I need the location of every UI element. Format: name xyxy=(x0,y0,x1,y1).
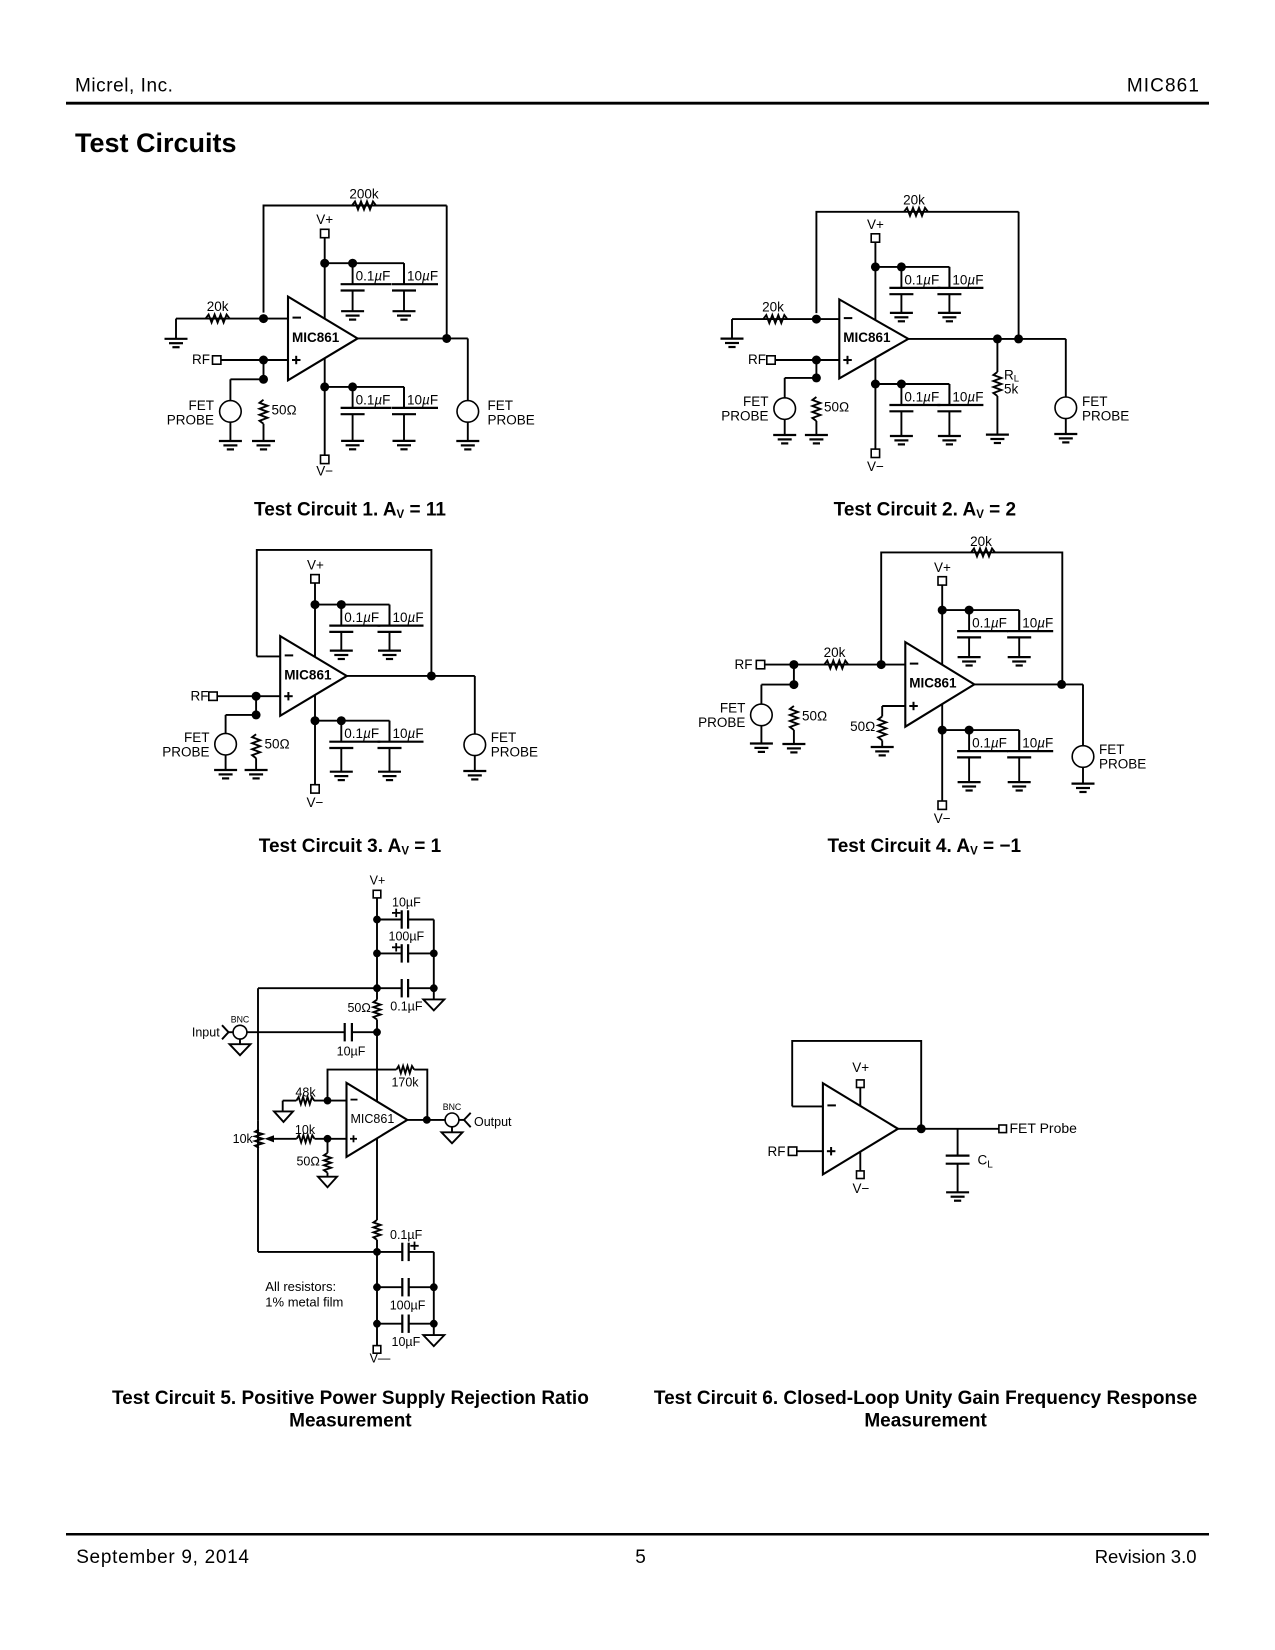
junction: V+ rail / bypass caps xyxy=(311,600,320,609)
junction: row 2 right xyxy=(430,1283,438,1291)
svg-text:20k: 20k xyxy=(824,645,846,660)
label R7 50 ohm xyxy=(265,737,290,752)
label R5 20k xyxy=(762,300,784,315)
pin: non-inverting input marker xyxy=(827,1147,836,1155)
label R8 50 ohm xyxy=(802,709,827,724)
svg-text:0.1µF: 0.1µF xyxy=(356,392,391,407)
svg-text:MIC861: MIC861 xyxy=(351,1112,395,1126)
wire: RF to +input xyxy=(217,695,280,697)
svg-text:10k: 10k xyxy=(295,1123,316,1137)
ground of C2 xyxy=(393,311,416,319)
svg-text:BNC: BNC xyxy=(443,1102,462,1112)
svg-text:10µF: 10µF xyxy=(407,269,438,284)
svg-text:10µF: 10µF xyxy=(392,1335,421,1349)
terminal RF xyxy=(735,657,765,672)
wire: output xyxy=(898,1128,999,1130)
footer: date xyxy=(76,1547,250,1568)
capacitor C21 0.1uF (V-) xyxy=(377,1228,434,1261)
ground under 50 ohm xyxy=(252,441,275,449)
junction: output / feedback xyxy=(917,1124,926,1133)
wire: feedback loop xyxy=(792,1041,921,1129)
ground under 50 ohm xyxy=(782,744,805,752)
terminal V- (bottom) xyxy=(370,1346,391,1366)
resistor R10 20k (feedback) xyxy=(971,548,995,556)
svg-text:50Ω: 50Ω xyxy=(850,719,875,734)
label R16 10k xyxy=(295,1123,316,1137)
junction: V- rail / bypass caps xyxy=(871,380,880,389)
svg-text:50Ω: 50Ω xyxy=(824,400,849,415)
ground of C13 xyxy=(958,657,981,665)
footer rule xyxy=(66,1533,1209,1536)
terminal V+ pin xyxy=(852,1060,869,1088)
label R15 10k xyxy=(233,1132,254,1146)
ground of C6 xyxy=(938,313,961,321)
capacitor C1 0.1uF xyxy=(341,263,392,311)
FET probe (output) xyxy=(457,398,535,428)
pin: inverting input marker xyxy=(293,317,302,319)
FET probe (input) xyxy=(721,394,795,424)
resistor R12 50 ohm (V+ injection) xyxy=(373,1000,380,1020)
label R1 200k xyxy=(349,186,379,201)
pin: inverting input marker xyxy=(844,317,853,319)
terminal RF xyxy=(768,1144,797,1159)
svg-text:Measurement: Measurement xyxy=(289,1410,412,1431)
svg-text:BNC: BNC xyxy=(231,1014,250,1024)
wire: inverting input xyxy=(176,319,288,339)
svg-text:20k: 20k xyxy=(970,534,992,549)
ground under output FET probe xyxy=(456,441,479,449)
resistor R5 20k (inverting input) xyxy=(763,315,787,323)
capacitor C4 10uF xyxy=(392,387,438,441)
ground at 20k input xyxy=(721,339,744,347)
pin: inverting input marker xyxy=(285,654,294,656)
resistor R17 50 ohm (+input to gnd) xyxy=(324,1139,331,1177)
junction: probe branch corner xyxy=(789,680,798,689)
junction: V+ bus / 0.1uF xyxy=(965,606,974,615)
junction: -input / feedback xyxy=(877,660,886,669)
ground (CL) xyxy=(946,1192,969,1200)
svg-text:20k: 20k xyxy=(762,300,784,315)
wire: V+ bypass cap bus xyxy=(315,605,390,626)
wire: feedback loop xyxy=(881,552,1062,684)
wire: output xyxy=(974,684,1083,746)
ground of C12 xyxy=(378,772,401,780)
svg-text:RF: RF xyxy=(191,689,209,704)
wire: V- bypass cap bus xyxy=(315,721,390,742)
wire: output xyxy=(347,676,475,734)
ground of C11 xyxy=(330,772,353,780)
svg-text:0.1µF: 0.1µF xyxy=(904,390,939,405)
terminal V+ xyxy=(867,217,884,242)
ground under input FET probe xyxy=(214,770,237,778)
svg-text:FET: FET xyxy=(184,730,210,745)
ground at 20k input xyxy=(165,339,188,347)
capacitor C20 10uF (input coupling) xyxy=(337,1023,366,1059)
junction: output / feedback xyxy=(1014,334,1023,343)
capacitor C9 0.1uF xyxy=(329,605,380,651)
junction: probe branch xyxy=(259,375,268,384)
junction: row C right xyxy=(430,984,438,992)
junction: V+ rail / bypass caps xyxy=(320,259,329,268)
svg-text:0.1µF: 0.1µF xyxy=(344,726,379,741)
svg-text:10µF: 10µF xyxy=(337,1045,366,1059)
wire: probe to ground xyxy=(760,726,762,744)
terminal V- xyxy=(867,449,884,474)
wire: +input node down/left to FET probe xyxy=(785,360,817,398)
ground (input BNC, triangle) xyxy=(230,1039,251,1055)
terminal: FET Probe xyxy=(999,1120,1077,1136)
junction: probe branch xyxy=(812,373,821,382)
footer: revision xyxy=(1095,1546,1197,1567)
ground (R17, triangle) xyxy=(318,1177,337,1188)
terminal: Input BNC xyxy=(192,1014,250,1039)
junction: feedback / -input xyxy=(812,315,821,324)
label R2 20k xyxy=(207,299,229,314)
svg-text:0.1µF: 0.1µF xyxy=(390,1228,423,1242)
svg-text:10µF: 10µF xyxy=(952,272,983,287)
Test Circuit 3 (Av = 1) xyxy=(162,550,538,857)
FET probe (input) xyxy=(698,700,772,730)
potentiometer R15 10k xyxy=(255,1129,263,1148)
terminal RF xyxy=(192,352,221,367)
svg-text:Input: Input xyxy=(192,1026,220,1040)
svg-text:10k: 10k xyxy=(233,1132,254,1146)
junction: feedback / -input xyxy=(259,314,268,323)
label R9 20k xyxy=(824,645,846,660)
junction: output / feedback xyxy=(442,334,451,343)
svg-text:5: 5 xyxy=(635,1547,646,1568)
label RL 5k xyxy=(1004,368,1019,397)
FET probe (output) xyxy=(464,730,538,760)
svg-text:10µF: 10µF xyxy=(1022,616,1053,631)
wire: V+ rail xyxy=(314,583,316,657)
wire: probe branch xyxy=(761,665,794,705)
resistor R1 200k (feedback) xyxy=(352,202,376,210)
wire: output probe to ground xyxy=(467,422,469,441)
svg-text:10µF: 10µF xyxy=(393,610,424,625)
note: all resistors xyxy=(265,1279,343,1309)
Test Circuit 6 (closed-loop unity gain) xyxy=(654,1041,1197,1431)
wire: right rail (top) xyxy=(433,920,435,1000)
pin: inverting input marker xyxy=(351,1099,358,1101)
terminal V- xyxy=(934,801,951,826)
resistor R14 48k xyxy=(283,1097,315,1111)
wire: right rail (bottom) xyxy=(433,1252,435,1335)
wire: feedback loop (direct) xyxy=(257,550,432,676)
svg-text:5k: 5k xyxy=(1004,382,1019,397)
wire: +input 50 ohm to ground xyxy=(881,740,883,747)
label R10 20k xyxy=(970,534,992,549)
svg-text:100µF: 100µF xyxy=(390,1299,426,1313)
svg-text:FET Probe: FET Probe xyxy=(1010,1120,1078,1136)
svg-text:V−: V− xyxy=(316,464,333,479)
label R3 50 ohm xyxy=(272,402,297,417)
svg-text:RF: RF xyxy=(192,352,210,367)
svg-text:RF: RF xyxy=(748,352,766,367)
FET probe (input) xyxy=(162,730,236,760)
svg-text:50Ω: 50Ω xyxy=(802,709,827,724)
op-amp U4 MIC861 xyxy=(905,642,974,727)
wire: +input node down/left to FET probe xyxy=(226,696,257,733)
capacitor C10 10uF xyxy=(378,605,424,651)
terminal RF xyxy=(191,689,218,704)
wire: probe to ground xyxy=(229,422,231,441)
ground under output FET probe xyxy=(463,771,486,779)
FET probe (input) xyxy=(167,398,241,428)
wire: V+ bypass cap bus xyxy=(325,263,404,284)
Test Circuit 2 (Av = 2) xyxy=(721,193,1130,521)
wire: output probe to ground xyxy=(474,756,476,771)
capacitor C23 10uF (V- bulk) xyxy=(377,1315,434,1350)
ground under input FET probe xyxy=(219,441,242,449)
svg-text:10µF: 10µF xyxy=(952,390,983,405)
wire: V- bypass cap bus xyxy=(875,384,949,405)
svg-text:FET: FET xyxy=(491,730,517,745)
capacitor C3 0.1uF xyxy=(341,387,392,441)
ground of C14 xyxy=(1008,657,1031,665)
resistor R11 50 ohm (+input) xyxy=(878,716,886,740)
wire: output probe to ground xyxy=(1065,419,1067,434)
wire: RF to +input xyxy=(221,359,288,361)
wire: probe to ground xyxy=(784,419,786,435)
svg-text:Test Circuits: Test Circuits xyxy=(75,128,237,158)
svg-text:PROBE: PROBE xyxy=(488,412,535,427)
ground of C15 xyxy=(958,782,981,790)
junction: -input node xyxy=(324,1097,332,1105)
capacitor C7 0.1uF xyxy=(889,384,940,436)
resistor R18 (V- injection) xyxy=(373,1220,380,1240)
junction: output node xyxy=(423,1116,431,1124)
svg-text:V+: V+ xyxy=(934,560,951,575)
op-amp U3 MIC861 xyxy=(280,636,347,716)
svg-text:100µF: 100µF xyxy=(389,930,425,944)
svg-text:RF: RF xyxy=(768,1144,786,1159)
junction: V- rail / bypass caps xyxy=(311,716,320,725)
junction: row B right xyxy=(430,950,438,958)
ground of C8 xyxy=(938,436,961,444)
svg-text:FET: FET xyxy=(1082,394,1108,409)
capacitor C19 0.1uF (V+) xyxy=(377,979,434,1013)
svg-text:0.1µF: 0.1µF xyxy=(356,269,391,284)
ground under input FET probe xyxy=(773,435,796,443)
pin: non-inverting input marker xyxy=(292,356,301,364)
ground (top right, triangle) xyxy=(423,999,444,1010)
svg-text:MIC861: MIC861 xyxy=(284,667,332,682)
junction: V- bus / 0.1uF xyxy=(337,716,346,725)
junction: row C left xyxy=(373,984,381,992)
ground of C16 xyxy=(1008,782,1031,790)
resistor R7 50 ohm (input termination) xyxy=(252,734,260,758)
capacitor CL (load) xyxy=(946,1129,970,1193)
svg-text:50Ω: 50Ω xyxy=(265,737,290,752)
wire: feedback right vertical xyxy=(446,206,448,339)
svg-text:0.1µF: 0.1µF xyxy=(972,736,1007,751)
Test Circuit 1 (Av = 11) xyxy=(165,186,535,521)
junction: +input node xyxy=(259,356,268,365)
svg-text:PROBE: PROBE xyxy=(1082,408,1129,423)
pin: non-inverting input marker xyxy=(350,1135,357,1142)
terminal V+ xyxy=(307,558,324,583)
svg-text:FET: FET xyxy=(1099,742,1125,757)
svg-text:20k: 20k xyxy=(903,193,925,208)
wire: left injection branch (bottom) xyxy=(258,1120,377,1252)
capacitor C13 0.1uF xyxy=(957,610,1008,657)
ground under +input 50 ohm xyxy=(871,747,894,755)
op-amp U1 MIC861 xyxy=(288,297,358,381)
wire: output xyxy=(908,339,1066,397)
header: Micrel, Inc. xyxy=(75,76,173,97)
ground of C1 xyxy=(341,311,364,319)
wire: 50 ohm to ground xyxy=(255,758,257,770)
ground (output BNC, triangle) xyxy=(442,1127,463,1144)
svg-text:FET: FET xyxy=(488,398,514,413)
wire: RF input line xyxy=(765,664,906,666)
ground under 50 ohm xyxy=(245,770,268,778)
Test Circuit 4 (Av = -1) xyxy=(698,534,1146,857)
svg-text:PROBE: PROBE xyxy=(1099,757,1146,772)
ground of C5 xyxy=(890,313,913,321)
svg-text:All resistors:: All resistors: xyxy=(265,1279,336,1294)
junction: V- bus / 0.1uF xyxy=(965,726,974,735)
terminal V- xyxy=(307,785,324,810)
caption: Test Circuit 1 xyxy=(254,500,446,522)
wire: V- rail xyxy=(324,358,326,455)
svg-text:CL: CL xyxy=(978,1152,994,1170)
wire: V+ pin to op-amp xyxy=(859,1088,861,1106)
label R11 50 ohm xyxy=(850,719,875,734)
svg-text:V+: V+ xyxy=(852,1060,869,1075)
wire: V- pin to op-amp xyxy=(859,1152,861,1171)
wiper arrow of R15 xyxy=(265,1135,297,1142)
capacitor C6 10uF xyxy=(937,267,983,313)
svg-text:50Ω: 50Ω xyxy=(272,402,297,417)
op-amp U6 xyxy=(823,1083,898,1174)
wire: V- rail xyxy=(314,695,316,785)
terminal V- xyxy=(316,455,333,478)
wire: +input node down/left to FET probe xyxy=(230,360,263,401)
svg-text:RF: RF xyxy=(735,657,753,672)
svg-text:PROBE: PROBE xyxy=(167,412,214,427)
resistor R9 20k (input) xyxy=(824,661,848,669)
wire: V- bypass cap bus xyxy=(325,387,404,408)
svg-text:PROBE: PROBE xyxy=(698,715,745,730)
capacitor C16 10uF xyxy=(1007,730,1053,782)
junction: V+ bus / 0.1uF xyxy=(897,262,906,271)
pin: non-inverting input marker xyxy=(843,356,852,364)
svg-text:FET: FET xyxy=(720,700,746,715)
terminal V+ xyxy=(316,212,333,238)
FET probe (output) xyxy=(1072,742,1146,772)
svg-text:20k: 20k xyxy=(207,299,229,314)
junction: V- bus / 0.1uF xyxy=(897,380,906,389)
capacitor C17 10uF (V+ bulk) xyxy=(377,896,434,929)
label CL xyxy=(978,1152,994,1170)
junction: row 3 right xyxy=(430,1320,438,1328)
resistor R4 20k (feedback) xyxy=(904,208,928,216)
junction: V+ rail / bypass caps xyxy=(938,606,947,615)
svg-text:Micrel, Inc.: Micrel, Inc. xyxy=(75,76,173,97)
terminal V- pin xyxy=(853,1171,870,1196)
wire: V+ rail xyxy=(941,585,943,665)
FET probe (output) xyxy=(1055,394,1129,424)
ground of C9 xyxy=(330,651,353,659)
junction: row 2 left xyxy=(373,1283,381,1291)
wire: left injection branch (top) xyxy=(258,988,377,1120)
ground under output FET probe xyxy=(1054,434,1077,442)
capacitor C22 100uF (V- bulk) xyxy=(377,1278,434,1313)
junction: probe branch xyxy=(252,710,261,719)
ground under RL xyxy=(986,435,1009,443)
ground of C3 xyxy=(341,441,364,449)
svg-text:V+: V+ xyxy=(307,558,324,573)
wire: V+ bypass cap bus xyxy=(875,267,949,288)
junction: +input node xyxy=(324,1135,332,1143)
wire: RF to +input xyxy=(775,359,839,361)
svg-text:10µF: 10µF xyxy=(1022,736,1053,751)
svg-text:1% metal film: 1% metal film xyxy=(265,1294,343,1309)
svg-text:Test Circuit 4. AV = −1: Test Circuit 4. AV = −1 xyxy=(828,836,1022,858)
wire: feedback loop xyxy=(328,1070,428,1120)
svg-text:PROBE: PROBE xyxy=(491,745,538,760)
ground under input FET probe xyxy=(750,744,773,752)
caption: Test Circuit 3 xyxy=(259,836,442,858)
wire: feedback loop top xyxy=(264,206,447,313)
resistor R6 50 ohm (input termination) xyxy=(812,397,820,421)
svg-text:PROBE: PROBE xyxy=(721,408,768,423)
wire: 50 ohm to ground xyxy=(793,730,795,744)
svg-text:Test Circuit 6. Closed-Loop Un: Test Circuit 6. Closed-Loop Unity Gain F… xyxy=(654,1388,1197,1409)
wire: RF to +input xyxy=(797,1150,823,1152)
resistor RL 5k (load) xyxy=(993,339,1001,435)
svg-text:10µF: 10µF xyxy=(407,392,438,407)
wire: V- rail xyxy=(874,358,876,449)
label R13 170k xyxy=(391,1075,419,1089)
junction: output / feedback xyxy=(1057,680,1066,689)
pin: non-inverting input marker xyxy=(284,692,293,700)
svg-text:V−: V− xyxy=(867,459,884,474)
label R4 20k xyxy=(903,193,925,208)
wire: 50 ohm to ground xyxy=(815,421,817,435)
terminal V+ xyxy=(934,560,951,585)
junction: RF / probe branch xyxy=(789,660,798,669)
terminal: Output BNC xyxy=(443,1102,512,1129)
junction: V- bus / 0.1uF xyxy=(348,382,357,391)
header: MIC861 xyxy=(1127,76,1200,97)
junction: V+ bus / 0.1uF xyxy=(348,259,357,268)
capacitor C8 10uF xyxy=(937,384,983,436)
svg-text:Test Circuit 1. AV = 11: Test Circuit 1. AV = 11 xyxy=(254,500,446,522)
junction: input node xyxy=(373,1028,381,1036)
svg-text:0.1µF: 0.1µF xyxy=(972,616,1007,631)
junction: V+ bus / 0.1uF xyxy=(337,600,346,609)
svg-text:Test Circuit 2. AV = 2: Test Circuit 2. AV = 2 xyxy=(834,500,1016,522)
svg-text:V+: V+ xyxy=(370,873,386,887)
label R14 48k xyxy=(295,1085,316,1099)
caption: Test Circuit 4 xyxy=(828,836,1022,858)
wire: V+ rail xyxy=(874,242,876,320)
wire: V- bypass cap bus xyxy=(942,730,1019,751)
label R17 50 ohm xyxy=(296,1155,320,1169)
wire: 50 ohm to ground xyxy=(263,424,265,441)
junction: +input node xyxy=(812,356,821,365)
pin: inverting input marker xyxy=(910,663,919,665)
wire: V+ rail xyxy=(324,238,326,319)
ground under output FET probe xyxy=(1072,784,1095,792)
junction: row A xyxy=(373,916,381,924)
wire: inverting input xyxy=(732,319,839,339)
Test Circuit 5 (PSRR measurement) xyxy=(112,873,589,1431)
ground of C10 xyxy=(378,651,401,659)
